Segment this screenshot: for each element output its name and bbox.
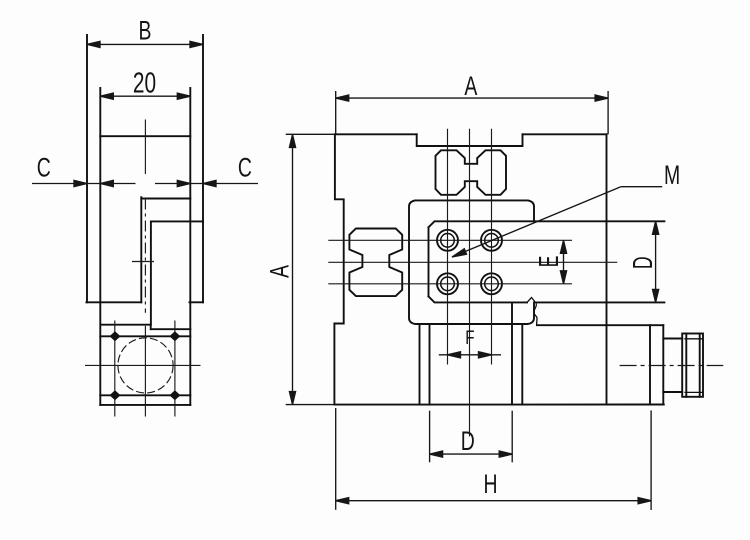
svg-text:E: E bbox=[533, 256, 564, 268]
svg-text:A: A bbox=[464, 71, 477, 101]
svg-text:C: C bbox=[37, 152, 51, 182]
svg-text:M: M bbox=[664, 160, 680, 190]
svg-text:C: C bbox=[238, 152, 252, 182]
svg-text:A: A bbox=[264, 265, 294, 278]
svg-text:D: D bbox=[461, 426, 475, 456]
svg-text:B: B bbox=[139, 15, 152, 45]
svg-text:20: 20 bbox=[133, 67, 156, 99]
svg-text:H: H bbox=[483, 469, 497, 499]
svg-text:F: F bbox=[465, 326, 474, 348]
svg-text:D: D bbox=[627, 256, 658, 269]
